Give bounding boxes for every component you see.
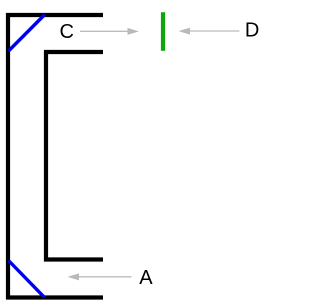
svg-text:D: D — [245, 20, 259, 42]
svg-text:C: C — [60, 21, 74, 43]
inner C-channel outline — [46, 52, 103, 260]
blue diagonal top-left — [9, 15, 45, 52]
svg-text:A: A — [139, 267, 153, 289]
blue diagonal bottom-left — [9, 261, 45, 298]
arrow C — [80, 28, 139, 35]
green bar D — [161, 12, 165, 51]
arrow D — [179, 28, 240, 35]
outer C-channel outline — [8, 15, 103, 298]
arrow A — [68, 273, 132, 280]
